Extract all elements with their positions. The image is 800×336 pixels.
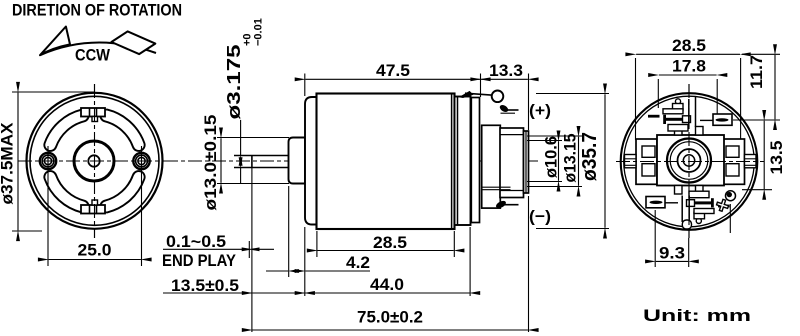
centerline overlay horizontal (18, 160, 171, 162)
top tab (81, 108, 105, 117)
horizontal centerline (616, 161, 764, 163)
lower-right terminal plate (694, 212, 705, 219)
svg-text:13.3: 13.3 (489, 61, 523, 80)
75.0 right extension (528, 196, 530, 332)
13.5 dimension line (253, 292, 305, 294)
flange bottom extension (304, 227, 306, 296)
centerline overlay vertical (688, 84, 690, 238)
svg-text:−0.01: −0.01 (253, 18, 265, 46)
9.3 dimension line (656, 260, 688, 262)
bushing (289, 138, 306, 184)
75.0 dimension line (253, 329, 528, 331)
dia10.6 extension bottom (527, 181, 562, 183)
center shaft hole (88, 155, 99, 166)
svg-text:ø13.15: ø13.15 (562, 134, 580, 183)
44.0 dimension line (305, 292, 469, 294)
13.3 dimension line (481, 78, 528, 80)
svg-text:17.8: 17.8 (672, 57, 706, 76)
47.5 extension line left (304, 74, 306, 97)
end play leader left (163, 248, 249, 250)
9.3 center extension (688, 238, 690, 267)
screw hole crosshair / 25.0 extension right (141, 146, 143, 266)
17.8 right extension (716, 79, 718, 115)
28.5 left extension into view (635, 58, 637, 140)
rear inner circle (624, 96, 755, 227)
lower terminal tab (495, 199, 507, 209)
svg-text:ø35.7: ø35.7 (579, 132, 601, 181)
center hub circle (74, 141, 114, 181)
17.8 left extension (657, 79, 659, 108)
dia3.175 dimension line upper (240, 120, 242, 155)
bearing housing inner edge (670, 142, 708, 180)
left wing lower window (642, 164, 655, 176)
4.2 arrow left (266, 270, 288, 272)
dia3.175 dimension line lower (240, 168, 242, 183)
upper-left lower plate (668, 125, 688, 132)
CCW rotation arrow arc (40, 43, 156, 56)
centerline overlay horizontal (616, 161, 764, 163)
9.3 left extension (654, 210, 656, 267)
svg-text:END PLAY: END PLAY (162, 252, 236, 270)
lower-right solid tab edge (718, 205, 730, 208)
shaft top edge + extension (234, 155, 289, 157)
svg-text:Unit: mm: Unit: mm (643, 307, 751, 325)
terminal lead wire (465, 93, 493, 95)
shaft bottom edge + extension (234, 167, 289, 169)
CCW tail parallelogram (111, 31, 155, 54)
bottom tab notch (92, 200, 98, 205)
13.5 dimension leader (163, 292, 252, 294)
right screw hole (133, 153, 149, 169)
4.2 arrow right + leader (305, 270, 370, 272)
svg-text:ø3.175: ø3.175 (224, 45, 244, 120)
13.3 right extension (528, 74, 530, 131)
28.5 extension left (316, 231, 318, 257)
svg-text:DIRETION OF ROTATION: DIRETION OF ROTATION (12, 2, 182, 20)
svg-text:13.5±0.5: 13.5±0.5 (171, 277, 239, 295)
upper-left terminal plate (673, 104, 684, 111)
cap step 2 (482, 125, 501, 208)
right wing block (724, 139, 745, 184)
svg-text:11.7: 11.7 (747, 55, 766, 89)
end cap ring inner line (457, 97, 459, 226)
left wing block (636, 139, 657, 184)
dia13.15 extension bottom (527, 186, 582, 188)
vent slot lower-right (100, 171, 144, 212)
bottom brush channel (681, 196, 683, 223)
square top tab left (675, 127, 683, 136)
13.5 dimension line (763, 121, 765, 189)
dia35.7 extension top (536, 93, 609, 95)
lower-right solid link (693, 201, 712, 204)
svg-text:28.5: 28.5 (373, 233, 407, 252)
shaft tip extension line down (251, 168, 253, 333)
motor outer circle (27, 93, 163, 229)
motor body (317, 94, 455, 230)
svg-text:(+): (+) (529, 103, 551, 120)
vent slot upper-right (100, 110, 144, 151)
vent slot lower-left (44, 171, 88, 212)
svg-text:13.5: 13.5 (767, 141, 786, 175)
right edge block (745, 155, 757, 168)
bottom channel notch (682, 220, 691, 229)
25.0 dimension line (49, 259, 141, 261)
upper terminal tab (499, 104, 510, 114)
upper-left terminal rivet (675, 99, 680, 104)
can crimp line (451, 94, 453, 230)
cap rib (471, 98, 479, 223)
lower-left terminal box (646, 197, 665, 208)
central brush card square (657, 135, 724, 186)
dia13.15 extension top (527, 135, 582, 137)
upper-left solid link (665, 118, 684, 121)
square bottom tab right (696, 186, 704, 195)
top tab notch (92, 117, 98, 122)
28.5 dimension line (636, 53, 740, 55)
dia13.15 dimension line (578, 137, 580, 186)
lower-right terminal bar (694, 209, 714, 214)
lower-right terminal rivet (696, 218, 701, 223)
shaft end circle (683, 155, 694, 166)
svg-text:0.1~0.5: 0.1~0.5 (166, 233, 226, 251)
left screw hole (40, 153, 56, 169)
end play gap line (248, 241, 250, 258)
shaft tip edge (251, 156, 253, 168)
svg-text:4.2: 4.2 (346, 253, 370, 272)
right wing upper window (726, 146, 739, 157)
front flange (305, 97, 317, 225)
dia37.5MAX dimension line (17, 93, 19, 231)
dia35.7 extension bottom (536, 228, 609, 230)
CCW arrowhead (40, 27, 70, 56)
motor inner circle (30, 96, 159, 225)
47.5 dimension line (305, 78, 480, 80)
upper-left solid tab edge (648, 115, 660, 118)
upper-right terminal box (713, 114, 732, 125)
upper-left link box (683, 116, 691, 123)
dia13.0 dimension line (220, 138, 222, 183)
square bottom tab left (675, 186, 683, 195)
44.0 right extension (469, 227, 471, 296)
dia13.0 bottom extension line (217, 183, 289, 185)
left wing upper window (642, 146, 655, 157)
centerline overlay vertical (94, 84, 96, 238)
right wing lower window (726, 164, 739, 176)
svg-text:ø13.0±0.15: ø13.0±0.15 (202, 115, 220, 211)
17.8 dimension line (659, 74, 717, 76)
rear outer circle (621, 93, 758, 230)
dia37.5MAX top extension line (12, 91, 94, 93)
dia13.0 top extension line (217, 137, 289, 139)
boss face inner line (525, 131, 527, 193)
screw hole crosshair / 25.0 extension left (47, 146, 49, 266)
28.5 right extension into view (740, 58, 742, 140)
svg-text:25.0: 25.0 (78, 241, 112, 260)
upper-left terminal bar (663, 109, 683, 114)
cap step 3 (500, 128, 524, 198)
13.5 top extension (733, 119, 780, 121)
28.5 extension right (453, 231, 455, 257)
bearing housing outer circle (667, 139, 711, 183)
svg-text:9.3: 9.3 (659, 244, 685, 263)
13.5 bottom extension (742, 189, 772, 191)
lower-right upper plate (689, 191, 709, 198)
polarity cross marker (715, 198, 730, 213)
svg-text:ø37.5MAX: ø37.5MAX (0, 123, 17, 205)
svg-text:44.0: 44.0 (370, 275, 404, 294)
upper brush arm strip (481, 186, 511, 188)
bearing boss face (524, 131, 529, 193)
lower-left terminal blade (650, 201, 663, 204)
horizontal centerline (18, 160, 171, 162)
terminal eyelet (492, 91, 504, 103)
terminal clamp wedge (460, 92, 473, 98)
dia35.7 dimension line (604, 94, 606, 228)
dia10.6 extension top (527, 140, 562, 142)
lower-right link box (687, 200, 695, 207)
4.2 bushing extension (288, 186, 290, 277)
vertical centerline (688, 84, 690, 238)
svg-text:28.5: 28.5 (672, 36, 706, 55)
left edge block (625, 155, 637, 168)
svg-text:47.5: 47.5 (376, 61, 410, 80)
middle centerline (164, 160, 540, 162)
lower-right solid post (711, 198, 714, 207)
svg-text:CCW: CCW (75, 46, 111, 65)
svg-text:75.0±0.2: 75.0±0.2 (357, 308, 423, 327)
bearing circle (678, 149, 701, 172)
upper-right terminal blade (716, 118, 729, 121)
28.5 dimension line (318, 250, 454, 252)
end play leader right (252, 248, 274, 250)
11.7 top extension (742, 53, 780, 55)
47.5/13.3 shared extension (480, 74, 482, 98)
svg-text:(−): (−) (529, 209, 551, 226)
bottom tab (81, 205, 105, 214)
dia10.6 dimension line (558, 141, 560, 181)
9.3 right extension (729, 204, 731, 233)
end cap ring (455, 97, 471, 226)
upper-left solid post (663, 115, 666, 124)
polarity dot marker (726, 191, 736, 201)
vertical centerline (94, 84, 96, 238)
11.7 dimension line (774, 55, 776, 119)
svg-text:ø10.6: ø10.6 (543, 136, 561, 178)
dia37.5MAX bottom extension line (12, 230, 42, 232)
vent slot upper-left (44, 110, 88, 151)
top brush channel (695, 97, 697, 127)
square top tab right (696, 127, 704, 136)
